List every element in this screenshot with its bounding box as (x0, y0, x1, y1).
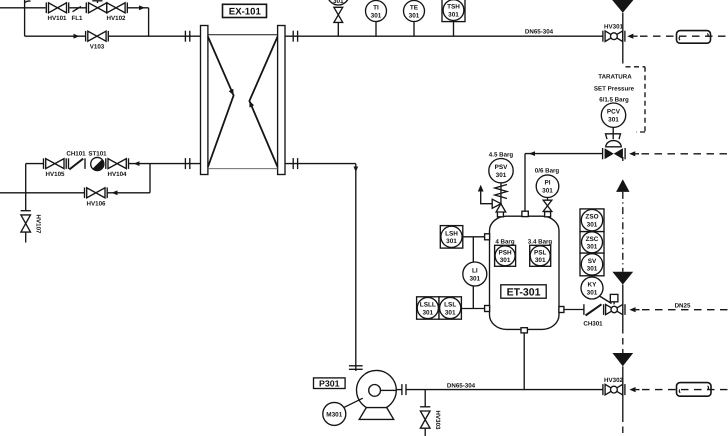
svg-text:301: 301 (446, 238, 457, 245)
wire right header below HV301 (622, 36, 624, 63)
wire header below KV (622, 310, 624, 327)
wire small arc at top of left header (25, 1, 31, 3)
flange EX bottom-right (293, 158, 297, 169)
svg-text:301: 301 (469, 275, 480, 282)
wire row2 (0, 192, 84, 194)
svg-text:ST101: ST101 (88, 151, 107, 158)
motor M301 (323, 398, 363, 425)
nozzle vessel right (559, 307, 564, 313)
nozzle vessel top PI (545, 212, 551, 217)
wire corner down to vessel top (524, 154, 526, 212)
instrument SV 301 (580, 253, 604, 276)
signal line KY to KV actuator (600, 296, 612, 304)
instrument LSL 301 (439, 297, 461, 319)
arrow into PCV from right (629, 151, 639, 156)
arrow flow left near corner (529, 151, 535, 156)
svg-text:SV: SV (588, 258, 597, 265)
svg-text:301: 301 (542, 188, 553, 195)
svg-text:301: 301 (587, 289, 598, 296)
vessel ET-301 (490, 216, 560, 329)
instrument ZSO 301 (580, 209, 604, 232)
valve HV105 (44, 158, 67, 169)
label box P301 (314, 378, 346, 389)
wire corner down to pump suction (355, 164, 357, 371)
arrow flow left on row2 (112, 190, 118, 195)
nozzle vessel top PSV (497, 212, 503, 217)
svg-text:PSL: PSL (534, 249, 547, 256)
wire corner down to line B (148, 8, 150, 36)
flow arrow up on header (616, 179, 629, 192)
wire header to HV302 (622, 366, 624, 415)
wire dash-dot header middle (622, 192, 624, 272)
wire header to KV valve (622, 285, 624, 310)
reducer FL1 (73, 7, 82, 12)
flange EX bottom-left (185, 158, 189, 169)
svg-text:TARATURA: TARATURA (598, 74, 632, 81)
pipeline connector cylinder top (677, 31, 711, 44)
flange EX top-right (293, 31, 297, 42)
instrument TE 301 (404, 1, 425, 37)
valve KV piston actuated (604, 294, 625, 315)
svg-text:ZSC: ZSC (586, 236, 599, 243)
svg-text:PSV: PSV (495, 164, 509, 171)
svg-text:PSH: PSH (499, 249, 513, 256)
wire dashed to battery limit top (640, 35, 728, 37)
valve PI root (543, 198, 552, 212)
wire vertical to HV107 (25, 164, 27, 211)
svg-text:TE: TE (410, 5, 419, 12)
svg-text:SET Pressure: SET Pressure (594, 86, 635, 93)
arrow into KV from right (629, 307, 639, 312)
svg-text:301: 301 (371, 12, 382, 19)
arrow flow down at corner (354, 167, 359, 173)
wire lower-left row1 (26, 163, 44, 165)
arrow into HV301 from right (627, 34, 637, 39)
svg-text:4.5 Barg: 4.5 Barg (489, 151, 514, 158)
wire row2 right segment (107, 192, 150, 194)
wire PCV outlet to vessel (525, 153, 603, 155)
nozzle vessel left upper (485, 234, 490, 240)
check valve CH101 (69, 158, 86, 169)
wire LSH to vessel (463, 236, 485, 238)
wire dashed right at PCV level (642, 153, 728, 155)
svg-text:301: 301 (422, 309, 433, 316)
svg-text:301: 301 (535, 257, 546, 264)
instrument ZSC 301 (580, 232, 604, 254)
svg-text:KY: KY (588, 282, 598, 289)
instrument TSH 301 (442, 0, 465, 36)
valve HV106 (85, 188, 108, 199)
svg-text:CH301: CH301 (583, 320, 603, 327)
svg-text:301: 301 (409, 12, 420, 19)
valve HV101 (46, 3, 68, 14)
pipeline connector cylinder bottom (677, 383, 712, 397)
valve HV301 ball (603, 31, 625, 42)
svg-text:EX-101: EX-101 (229, 7, 262, 18)
wire dashed DN25 right (642, 309, 728, 311)
svg-text:301: 301 (448, 11, 459, 18)
arrow into HV302 from right (629, 387, 639, 392)
svg-text:301: 301 (587, 266, 598, 273)
wire top main line A (0, 7, 46, 9)
wire row1 to EX (129, 163, 201, 165)
instrument LSH 301 (440, 226, 463, 249)
instrument PSV 301 (489, 159, 513, 183)
svg-text:301: 301 (445, 309, 456, 316)
svg-text:301: 301 (587, 222, 598, 229)
flow arrow down on header (612, 272, 633, 285)
svg-text:ET-301: ET-301 (507, 287, 541, 299)
instrument TI 301 (366, 1, 387, 37)
svg-text:DN65-304: DN65-304 (525, 29, 554, 36)
wire vessel to CH301 (564, 309, 584, 311)
pump P301 casing (357, 370, 397, 410)
wire dash below PCV (622, 157, 624, 164)
svg-text:ZSO: ZSO (585, 214, 598, 221)
svg-text:V103: V103 (90, 43, 105, 50)
nozzle vessel bottom (521, 328, 527, 333)
svg-text:HV104: HV104 (108, 171, 127, 178)
svg-text:HV106: HV106 (87, 200, 106, 207)
svg-text:4 Barg: 4 Barg (495, 239, 514, 246)
svg-text:HV105: HV105 (46, 171, 65, 178)
label DN25 (673, 301, 693, 310)
instrument LI 301 (463, 262, 487, 286)
svg-text:M301: M301 (326, 411, 342, 418)
arrow flow right on line A (139, 5, 145, 10)
wire level bridle vertical (472, 237, 474, 309)
arrow flow right on line B (74, 34, 80, 39)
wire vessel bottom drop (523, 333, 525, 390)
flange pump suction (349, 366, 363, 370)
svg-text:301: 301 (608, 117, 619, 124)
valve V103 (86, 31, 109, 42)
instrument LSLL 301 (417, 297, 439, 319)
svg-text:LSLL: LSLL (420, 302, 436, 309)
instrument PCV 301 (601, 103, 625, 127)
svg-text:HV107: HV107 (35, 215, 42, 234)
sight glass ST101 (91, 157, 104, 170)
instrument PSL 301 (530, 245, 551, 266)
off-page arrow top (filled triangle down) (612, 0, 633, 13)
svg-text:301: 301 (500, 257, 511, 264)
instrument PI 301 (536, 175, 559, 198)
svg-text:TI: TI (373, 5, 379, 12)
nozzle vessel left lower (485, 306, 490, 312)
svg-text:301: 301 (496, 172, 507, 179)
svg-text:DN65-304: DN65-304 (447, 382, 476, 389)
wire PSV outlet vent (478, 185, 492, 204)
wire line B with V103 (25, 35, 86, 37)
wire vertical left header top (24, 0, 26, 36)
flange pump discharge (402, 384, 406, 395)
heat exchanger EX-101 (201, 26, 286, 175)
svg-text:CH101: CH101 (66, 151, 86, 158)
wire dashed right bottom (642, 389, 728, 391)
note bracket dashed (626, 67, 646, 132)
wire stem from top arrow to pipe (622, 13, 624, 36)
label box ET-301 (501, 285, 546, 298)
valve HV303 drain (420, 390, 430, 436)
instrument KY 301 (581, 277, 603, 299)
wire dashed header bottom (622, 416, 624, 436)
wire discharge line DN65-304 (396, 389, 402, 391)
label DN65-304 bottom (444, 381, 478, 389)
pump impeller (369, 385, 397, 397)
svg-text:HV302: HV302 (604, 377, 623, 384)
flow arrow down on header lower (612, 353, 633, 366)
svg-text:LSL: LSL (444, 302, 456, 309)
arrow flow left on row1 (134, 161, 140, 166)
svg-text:HV102: HV102 (107, 15, 126, 22)
svg-text:LSH: LSH (445, 230, 458, 237)
svg-text:301: 301 (587, 244, 598, 251)
note TARATURA SET Pressure (594, 74, 635, 104)
wire bottom pipe from EX to pump (285, 163, 356, 165)
flange EX top-left (185, 31, 189, 42)
instrument 301 root valve (cut at top) (327, 0, 349, 36)
svg-text:TSH: TSH (447, 4, 460, 11)
relief valve PSV body (492, 199, 506, 212)
svg-text:301: 301 (333, 0, 344, 5)
svg-text:DN25: DN25 (675, 302, 691, 309)
nozzle vessel top center (522, 211, 528, 216)
wire LSL to vessel (461, 308, 484, 310)
valve HV107 vertical (21, 211, 31, 243)
relief valve PSV spring (500, 183, 502, 204)
svg-text:HV101: HV101 (48, 15, 67, 22)
valve HV104 (106, 158, 129, 169)
control valve PCV 301 body with actuator (603, 127, 626, 159)
valve HV302 ball (603, 384, 625, 395)
svg-text:HV301: HV301 (604, 24, 623, 31)
instrument PSH 301 (495, 245, 516, 266)
svg-text:FL1: FL1 (71, 15, 83, 22)
svg-text:0/6 Barg: 0/6 Barg (535, 167, 560, 174)
svg-text:P301: P301 (319, 379, 340, 389)
svg-text:PI: PI (544, 180, 550, 187)
check valve CH301 (584, 304, 602, 315)
wire top main pipe right of EX (285, 35, 603, 37)
svg-text:LI: LI (472, 268, 478, 275)
label box EX-101 (223, 4, 267, 17)
pump base (359, 408, 394, 420)
wire vertical junction row1-row2 (149, 164, 151, 193)
wire after HV102 (127, 7, 148, 9)
wire line B to EX-101 (108, 35, 200, 37)
svg-text:3.4 Barg: 3.4 Barg (528, 239, 553, 246)
svg-text:HV303: HV303 (434, 411, 441, 430)
svg-text:PCV: PCV (607, 109, 621, 116)
valve HV102 double block (86, 1, 127, 13)
